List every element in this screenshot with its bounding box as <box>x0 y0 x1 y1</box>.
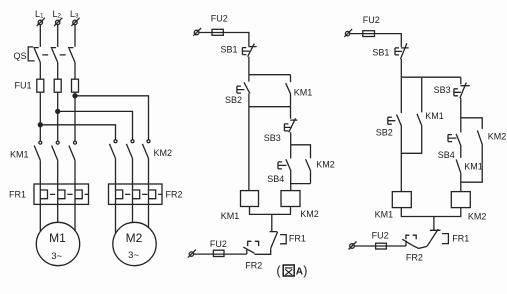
wire KM1 pole3 to motor M1 <box>74 160 76 231</box>
wire QS pole1 to FU1 <box>39 62 41 79</box>
contactor KM2 main contact pole 1 <box>109 140 117 159</box>
svg-text:FR1: FR1 <box>9 189 26 199</box>
button SB1 NC (circuit B) <box>395 43 409 59</box>
svg-text:FR1: FR1 <box>289 234 306 244</box>
wire FR1 to FR2 <box>255 248 271 254</box>
contact FR1 NC thermal (circuit B) <box>427 229 448 246</box>
coil KM2 (circuit A) <box>281 191 300 207</box>
svg-text:QS: QS <box>14 51 27 61</box>
thermal relay FR2 box <box>109 184 163 204</box>
switch QS pole 1 <box>33 48 40 63</box>
wire KM2 aux to join (circuit B) <box>461 145 482 182</box>
svg-text:SB2: SB2 <box>225 95 242 105</box>
thermal relay FR1 heater 1 <box>40 190 47 199</box>
button SB3 NC (circuit B) <box>454 77 470 98</box>
svg-text:SB4: SB4 <box>438 150 455 160</box>
terminal bottom (circuit A) <box>188 250 196 258</box>
wire SB2 to KM1 coil (circuit B) <box>400 127 402 192</box>
coil KM1 (circuit B) <box>392 192 411 208</box>
button SB1 NC (circuit A) <box>242 44 256 57</box>
svg-text:SB3: SB3 <box>434 85 451 95</box>
svg-text:FR1: FR1 <box>452 233 469 243</box>
svg-text:KM2: KM2 <box>316 160 335 170</box>
contact FR2 NC thermal (circuit B) <box>402 235 416 246</box>
switch QS pole 2 <box>51 48 58 63</box>
wire top rail (circuit B) <box>401 76 461 78</box>
node L1 terminal <box>37 18 45 26</box>
wire terminal to SB1 <box>199 33 249 47</box>
junction dot phase3 tap <box>73 94 77 98</box>
svg-text:KM2: KM2 <box>154 148 173 158</box>
svg-text:FR2: FR2 <box>406 252 423 262</box>
thermal relay FR2 heater 2 <box>133 190 140 199</box>
contact KM2 aux NO (circuit A) <box>306 159 311 171</box>
wire terminal to FR2 (circuit B) <box>354 245 406 247</box>
terminal bottom (circuit B) <box>349 242 357 250</box>
node L2 terminal <box>54 18 62 26</box>
wire KM1 pole2 to motor M1 <box>57 160 59 222</box>
wire L1 to QS <box>39 25 41 47</box>
contact KM1 aux NO (circuit A) <box>286 75 291 95</box>
button SB2 NO (circuit A) <box>237 75 250 94</box>
thermal relay FR2 heater 3 <box>149 190 156 199</box>
control circuit B : terminal top <box>344 29 352 37</box>
svg-text:FU2: FU2 <box>210 239 227 249</box>
button SB2 NO (circuit B) <box>388 77 402 126</box>
wire main down to KM1 coil <box>248 107 250 191</box>
wire split rail to KM2 aux branch <box>291 145 311 159</box>
wire tap phase1 to KM2 branch <box>40 125 115 140</box>
svg-text:KM1: KM1 <box>294 88 313 98</box>
fuse FU2 bottom (circuit A) <box>213 250 224 256</box>
svg-text:FU2: FU2 <box>363 15 380 25</box>
contact KM2 aux NO (circuit B) <box>477 130 482 145</box>
svg-text:KM2: KM2 <box>488 131 507 141</box>
fuse FU1 element 1 <box>37 79 44 92</box>
QS mechanical link dashes <box>42 54 65 56</box>
contactor KM2 main contact pole 2 <box>126 140 134 159</box>
wire node to SB3 <box>290 107 292 119</box>
wire SB2 to bottom rail <box>248 93 250 106</box>
wire SB1 to node (circuit B) <box>400 59 402 77</box>
button SB4 NO (circuit A) <box>278 159 291 171</box>
contact FR2 NC thermal (circuit A) <box>243 241 258 254</box>
svg-text:FR2: FR2 <box>166 189 183 199</box>
svg-text:KM2: KM2 <box>468 212 487 222</box>
svg-text:KM1: KM1 <box>425 111 444 121</box>
caption (figure A) <box>276 264 307 278</box>
FR2 link dashes <box>125 193 161 195</box>
fuse FU2 bottom (circuit B) <box>376 243 387 249</box>
motor M2 circle <box>113 222 156 265</box>
coil KM1 (circuit A) <box>241 191 259 207</box>
svg-text:SB1: SB1 <box>372 47 389 57</box>
contact KM1 aux NO self-hold (circuit B) <box>417 77 422 126</box>
svg-text:SB2: SB2 <box>376 127 393 137</box>
wire terminal to SB1 (circuit B) <box>350 34 402 47</box>
wire SB3 to split <box>290 132 292 145</box>
svg-text:KM2: KM2 <box>300 209 319 219</box>
svg-text:SB1: SB1 <box>221 44 238 54</box>
wire parallel top rail (circuit A) <box>249 74 291 76</box>
wire QS pole2 to FU1 <box>57 62 59 79</box>
wire FU1 phase3 down to KM1 <box>74 92 76 141</box>
svg-text:3~: 3~ <box>51 251 62 262</box>
wire FR2 to FR1 (circuit B) <box>412 245 427 248</box>
wire KM1 aux join (circuit B) <box>401 126 421 153</box>
wire FU1 phase2 down to KM1 <box>57 92 59 141</box>
wire coil bottoms join (circuit A) <box>250 207 291 232</box>
button SB4 NO (circuit B) <box>448 118 461 146</box>
wire coil bottoms join (circuit B) <box>401 208 461 231</box>
thermal relay FR1 heater 3 <box>75 190 82 199</box>
contactor KM2 main contact pole 3 <box>142 140 150 159</box>
svg-text:SB3: SB3 <box>264 133 281 143</box>
control circuit A : terminal <box>193 28 201 36</box>
svg-text:FR2: FR2 <box>245 261 262 271</box>
svg-text:3~: 3~ <box>128 250 139 261</box>
contact FR1 NC thermal (circuit A) <box>270 232 287 249</box>
wire KM2 aux to join <box>310 171 312 184</box>
QS bracket <box>28 47 34 61</box>
svg-text:KM1: KM1 <box>10 149 29 159</box>
svg-text:FU2: FU2 <box>211 14 228 24</box>
svg-text:FU2: FU2 <box>372 230 389 240</box>
wire SB1 to node <box>248 57 250 75</box>
thermal relay FR1 heater 2 <box>58 190 65 199</box>
junction dot phase2 tap <box>56 109 60 113</box>
wire FU2 bottom to FR2 <box>194 253 247 255</box>
svg-text:SB4: SB4 <box>267 174 284 184</box>
wire KM2 pole3 to motor M2 <box>148 158 150 227</box>
fuse FU1 element 2 <box>54 79 61 92</box>
svg-text:FU1: FU1 <box>15 81 32 91</box>
svg-text:): ) <box>303 264 307 278</box>
fuse FU1 element 3 <box>72 79 79 92</box>
button SB3 NC (circuit A) <box>284 118 297 132</box>
fuse FU2 top (circuit B) <box>363 31 375 37</box>
wire tap phase3 to KM2 branch <box>75 96 149 140</box>
wire FU1 phase1 down to KM1 <box>39 92 41 141</box>
svg-text:M1: M1 <box>49 231 66 245</box>
contact KM1 aux NO sequence (circuit B) <box>456 146 461 174</box>
wire KM2 pole1 to motor M2 <box>115 158 117 233</box>
switch QS pole 3 <box>68 48 75 63</box>
wire SB3 to split (circuit B) <box>460 98 462 118</box>
svg-text:A: A <box>296 266 303 277</box>
wire join rail (circuit A) <box>291 183 311 185</box>
svg-text:KM1: KM1 <box>375 209 394 219</box>
wire KM1 pole1 to motor M1 <box>39 160 41 231</box>
svg-text:KM1: KM1 <box>464 161 483 171</box>
wire QS pole3 to FU1 <box>74 62 76 79</box>
wire SB4 to KM2 coil <box>290 171 292 191</box>
contactor KM1 main contact pole 1 <box>34 141 42 160</box>
wire split rail to KM2 aux (circuit B) <box>461 118 482 129</box>
fuse FU2 top (circuit A) <box>212 29 223 35</box>
thermal relay FR1 box <box>34 184 89 204</box>
wire KM1 aux to bottom rail <box>290 94 292 107</box>
contactor KM1 main contact pole 3 <box>69 141 77 160</box>
thermal relay FR2 heater 1 <box>116 190 123 199</box>
wire parallel bottom rail (circuit A) <box>249 106 291 108</box>
motor M1 circle <box>36 222 79 265</box>
node L3 terminal <box>71 18 79 26</box>
junction dot phase1 tap <box>38 123 42 127</box>
wire KM1 seq to KM2 coil (circuit B) <box>460 174 462 192</box>
svg-text:KM1: KM1 <box>221 211 240 221</box>
wire L2 to QS <box>57 25 59 47</box>
wire L3 to QS <box>74 25 76 47</box>
svg-text:M2: M2 <box>126 231 143 245</box>
coil KM2 (circuit B) <box>451 192 470 208</box>
wire KM2 pole2 to motor M2 <box>132 158 134 222</box>
FR1 link dashes <box>50 193 88 195</box>
contactor KM1 main contact pole 2 <box>52 141 60 160</box>
wire tap phase2 to KM2 branch <box>58 111 133 139</box>
wire split to SB4 <box>290 145 292 159</box>
